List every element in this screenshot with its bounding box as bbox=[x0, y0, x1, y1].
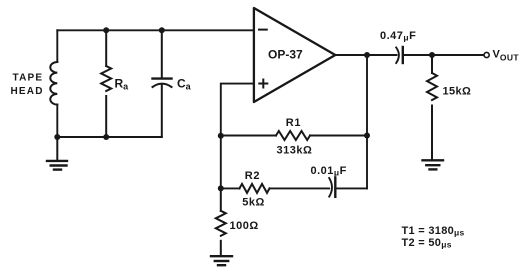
ground (tape head network) bbox=[47, 137, 67, 170]
node Ra top bbox=[103, 27, 109, 33]
node output bbox=[364, 52, 370, 58]
svg-text:0.01μF: 0.01μF bbox=[311, 165, 347, 178]
node R2 left bbox=[218, 185, 224, 191]
tape head inductor L1 bbox=[50, 62, 57, 105]
wire top rail from tape head to op-amp inverting input bbox=[57, 29, 253, 31]
wire left vertical lower (tape head bottom lead) bbox=[56, 105, 58, 137]
svg-text:313kΩ: 313kΩ bbox=[277, 145, 313, 157]
wire C2 to right vertical bbox=[335, 187, 367, 189]
resistor R4 100 ohm bbox=[216, 188, 226, 255]
wire R2 row left bbox=[221, 187, 240, 189]
svg-text:15kΩ: 15kΩ bbox=[443, 86, 472, 98]
node Ca top bbox=[159, 27, 165, 33]
svg-text:5kΩ: 5kΩ bbox=[242, 197, 265, 209]
Vout open terminal bbox=[484, 52, 489, 57]
wire noninverting input bbox=[221, 84, 254, 136]
svg-text:R1: R1 bbox=[286, 117, 301, 129]
plus input mark bbox=[259, 80, 267, 88]
wire bottom rail bbox=[57, 136, 162, 138]
wire R1 row bbox=[221, 135, 367, 137]
svg-text:R2: R2 bbox=[245, 170, 260, 182]
wire R2 to C2 bbox=[270, 187, 330, 189]
svg-text:0.47μF: 0.47μF bbox=[380, 30, 416, 43]
resistor R2 bbox=[240, 184, 270, 193]
capacitor Ca bbox=[153, 30, 172, 137]
resistor R3 15k bbox=[427, 55, 437, 160]
ground (below 15k) bbox=[423, 160, 444, 169]
wire left vertical upper (tape head top lead) bbox=[56, 30, 58, 62]
svg-text:TAPE: TAPE bbox=[13, 73, 44, 84]
resistor R1 bbox=[276, 131, 310, 140]
node R1 right bbox=[364, 133, 370, 139]
label TAPE HEAD bbox=[11, 73, 44, 97]
svg-text:OP-37: OP-37 bbox=[268, 48, 303, 62]
wire left feedback vertical to R2 node bbox=[220, 136, 222, 189]
node 15k top bbox=[429, 52, 435, 58]
capacitor C1 0.47uF bbox=[396, 47, 403, 63]
svg-text:T1 = 3180μs: T1 = 3180μs bbox=[402, 225, 465, 238]
wire right feedback vertical bbox=[366, 55, 368, 188]
svg-text:100Ω: 100Ω bbox=[230, 220, 259, 232]
minus input mark bbox=[259, 29, 267, 31]
capacitor C2 0.01uF bbox=[329, 178, 335, 197]
svg-text:HEAD: HEAD bbox=[11, 86, 44, 97]
node ground left bbox=[54, 134, 60, 140]
resistor Ra bbox=[101, 30, 111, 137]
node Ra bottom bbox=[103, 134, 109, 140]
op-amp U1 OP-37 bbox=[254, 8, 335, 102]
ground (below 100 ohm) bbox=[211, 256, 232, 265]
wire op-amp output bbox=[335, 54, 396, 56]
node R1 left bbox=[218, 133, 224, 139]
svg-text:T2 = 50μs: T2 = 50μs bbox=[402, 237, 452, 250]
wire cap to Vout bbox=[403, 54, 484, 56]
